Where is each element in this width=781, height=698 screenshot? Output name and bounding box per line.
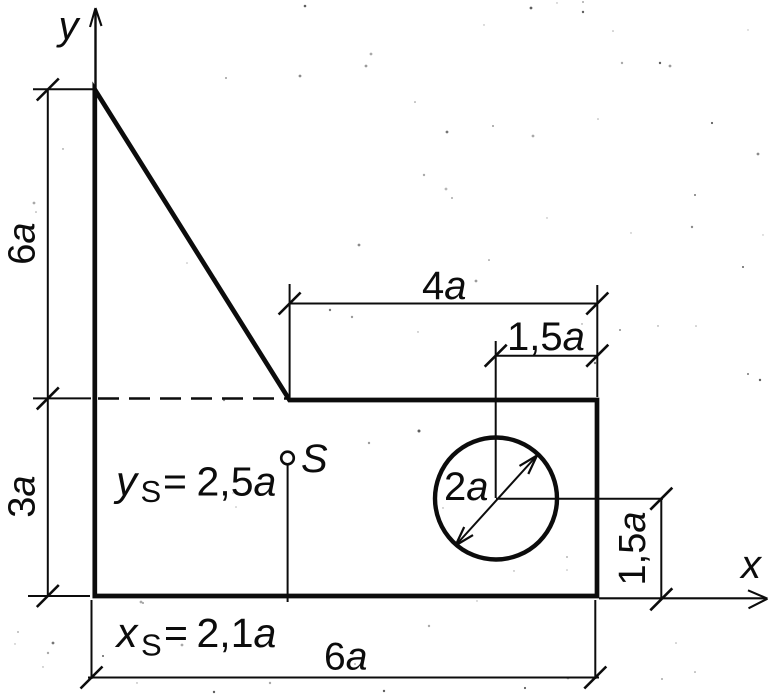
1,5a top dimension [496,355,598,357]
vertical line from S to bottom edge [287,465,289,603]
svg-text:x: x [739,543,763,587]
shape outline (section profile) [95,90,597,597]
svg-text:1,5a: 1,5a [612,512,654,586]
centroid S marker [281,452,294,465]
svg-text:y: y [56,4,82,48]
tick 4a left [279,293,301,315]
bottom 6a dimension [88,677,599,679]
y-axis arrowhead [90,8,102,27]
arrowhead lower left [456,527,474,546]
extension line at bottom-left [28,595,90,597]
extension line right of 4a (above right edge) [596,285,598,397]
tick at left middle [37,387,59,409]
extension line from circle center up [495,341,497,498]
extension line bottom-right corner down [594,600,596,679]
circle hole 2a [435,438,557,560]
tick right dim top [650,488,672,510]
tick right dim bottom [650,588,672,610]
tick 4a right [586,293,608,315]
arrowhead upper right [520,456,538,475]
tick at left top [37,79,59,101]
right 1,5a dimension: horizontal line from circle center [496,498,663,500]
svg-text:3a: 3a [2,475,44,517]
tick at left bottom [37,585,59,607]
svg-text:S: S [301,437,328,481]
diameter arrow inside circle [456,456,538,546]
svg-text:6a: 6a [2,222,44,264]
svg-text:2a: 2a [444,465,489,509]
extension line at 3a level (left of shape) [33,397,91,399]
left dimension line (6a / 3a) [47,90,49,598]
svg-text:1,5a: 1,5a [507,315,585,359]
x-axis arrowhead [748,590,768,608]
y-axis [94,9,96,89]
tick 1,5a left [485,345,507,367]
x-axis [599,597,766,599]
extension line left of 4a [289,284,291,397]
svg-text:6a: 6a [324,636,367,679]
4a dimension [290,303,598,305]
extension line bottom-left corner down [91,600,93,679]
extension line at 9a level [33,88,93,90]
svg-text:4a: 4a [422,264,467,308]
tick 1,5a right [586,345,608,367]
dashed line at 3a level [98,397,289,400]
tick bottom 6a left [81,667,103,689]
right 1,5a dimension line vertical [660,499,662,600]
tick bottom 6a right [584,667,606,689]
